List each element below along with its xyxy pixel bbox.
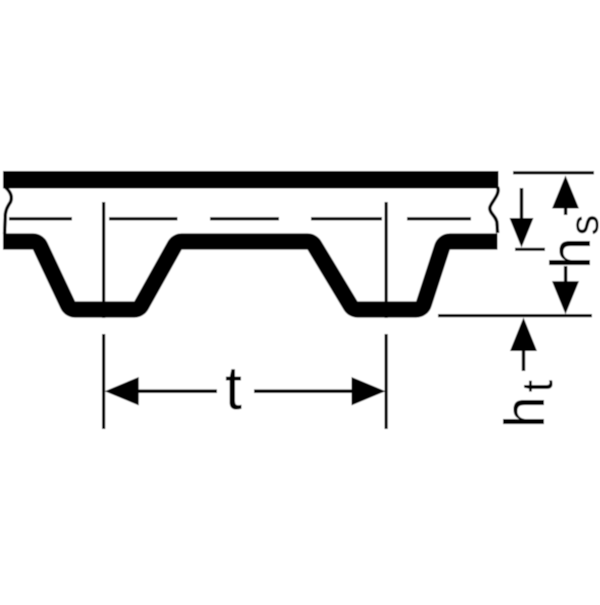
- pitch line dash 3: [210, 217, 279, 220]
- t dimension right arrowhead: [352, 377, 386, 405]
- t dimension line right segment: [254, 389, 354, 393]
- hs label: [539, 215, 600, 269]
- pitch line dash 4: [311, 217, 382, 220]
- ht upper arrow (outside, pointing down): [520, 188, 523, 220]
- tooth 2 centerline: [385, 202, 388, 318]
- pitch line dash 5: [407, 217, 471, 220]
- pitch line dash 1: [9, 217, 72, 220]
- tooth 1 centerline: [102, 202, 105, 318]
- pitch line dash 2: [109, 217, 178, 220]
- hs dimension upper arrow: [552, 176, 579, 209]
- land extension line (ht top reference): [515, 248, 545, 251]
- right break line: [490, 187, 498, 233]
- t dimension line left segment: [120, 389, 217, 393]
- t dimension left arrowhead: [105, 377, 139, 405]
- ht lower arrow (outside, pointing up): [510, 318, 537, 352]
- belt top surface bar: [3, 171, 499, 189]
- tooth bottom extension line: [438, 314, 592, 317]
- ht label: [493, 380, 562, 428]
- belt tooth profile: [3, 241, 498, 309]
- hs top extension line: [513, 171, 594, 174]
- left break line: [5, 187, 12, 234]
- svg-text:t: t: [225, 354, 242, 422]
- hs dimension lower arrow: [564, 266, 567, 283]
